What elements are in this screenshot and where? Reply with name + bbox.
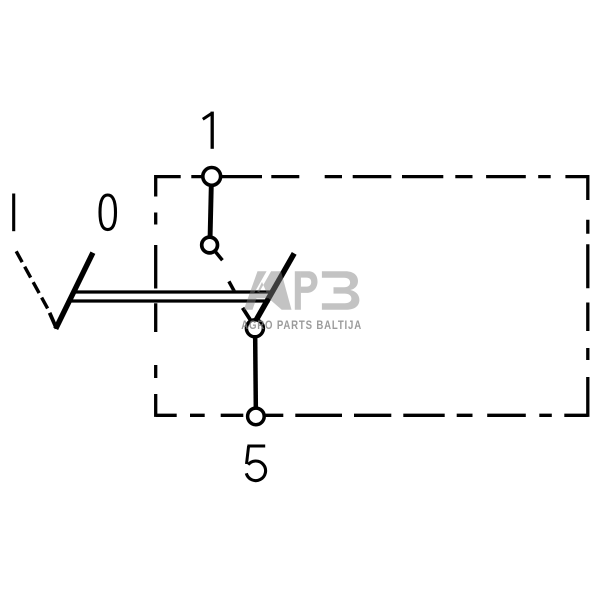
- moving arm solid (right side): [255, 253, 294, 321]
- pivot contact circle: [246, 320, 263, 337]
- enclosure top edge (dash-dot): [156, 175, 588, 178]
- watermark APB letter A: [244, 271, 292, 309]
- fixed contact circle (position I side): [202, 237, 218, 253]
- actuator pivot V left branch: [50, 313, 57, 329]
- enclosure right edge (dash-dot): [586, 175, 589, 417]
- actuator position I dashes (left side): [16, 251, 48, 308]
- wire pivot to terminal 5: [253, 328, 258, 416]
- pin label 5: [246, 446, 265, 481]
- watermark APB letter B: [322, 271, 360, 310]
- svg-text:AGRO PARTS BALTIJA: AGRO PARTS BALTIJA: [241, 319, 362, 332]
- moving arm V left branch (right side): [243, 308, 251, 321]
- wire terminal 1 to fixed contact: [210, 176, 212, 245]
- pin label 1: [203, 112, 212, 149]
- position label I: [12, 194, 15, 232]
- watermark APB letter P: [295, 271, 318, 309]
- moving arm position I dash (right side): [229, 281, 235, 291]
- contact stub at fixed contact: [215, 252, 222, 261]
- lever bar top line: [74, 290, 274, 293]
- terminal 1 contact circle: [203, 168, 221, 186]
- lever bar bottom line: [70, 299, 270, 302]
- terminal 5 contact circle: [248, 408, 265, 425]
- lever bar interior (white): [74, 290, 273, 302]
- actuator lever solid (position 0): [56, 253, 93, 329]
- position label 0: [100, 195, 116, 230]
- enclosure left edge (dash-dot): [154, 175, 157, 417]
- enclosure bottom edge (dash-dot): [156, 414, 588, 417]
